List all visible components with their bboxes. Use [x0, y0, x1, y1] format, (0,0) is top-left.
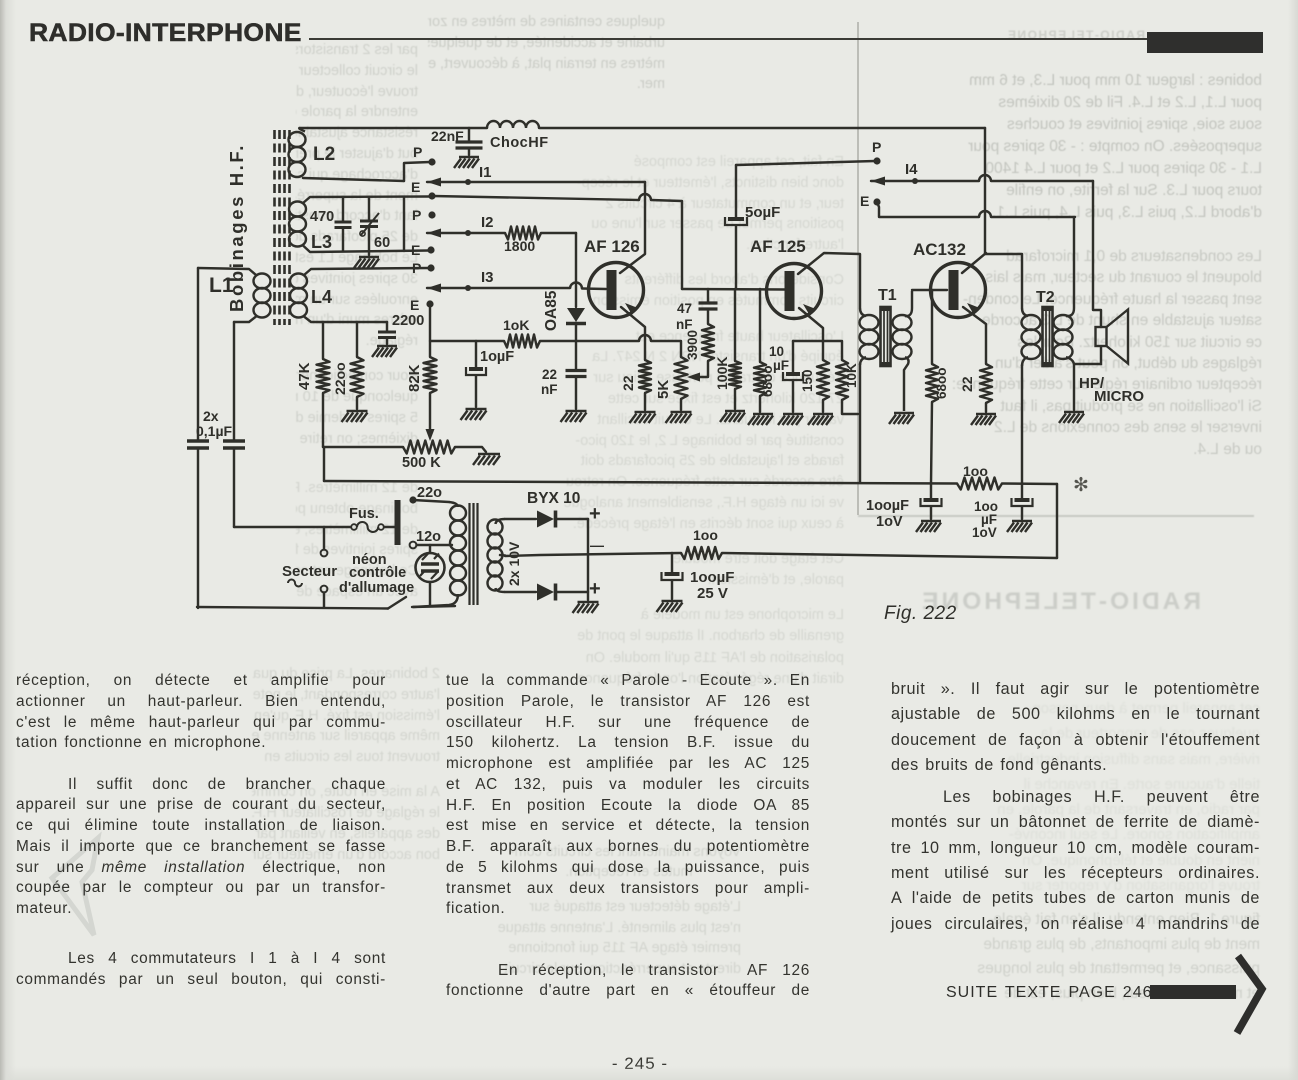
switch wiper I2: [427, 229, 441, 238]
mains transformer primary: [449, 502, 458, 507]
capacitor 100uF 10V (#1): [930, 484, 932, 498]
switch contact E3: [426, 300, 433, 307]
wire: L3 tank junction: [403, 197, 405, 251]
resistor 6800 (AC132 base): [931, 290, 933, 364]
capacitor 22nF (detector): [566, 371, 587, 377]
wire: 82K to 500K wiper: [429, 393, 431, 429]
ground (T2 secondary): [1064, 411, 1084, 414]
svg-text:AC132: AC132: [913, 240, 966, 259]
svg-text:T2: T2: [1036, 289, 1055, 306]
svg-text:2x 10V: 2x 10V: [506, 541, 522, 586]
wire: rectifier positive to ground: [587, 519, 589, 600]
svg-text:I4: I4: [905, 161, 918, 178]
wire: AF126 collector: [620, 182, 645, 273]
capacitor 10uF (AF audio): [475, 341, 477, 367]
svg-text:5K: 5K: [655, 380, 672, 399]
ground (22nF): [459, 156, 479, 159]
wire: E1 line toward AF125: [433, 196, 639, 200]
switch contact P4: [873, 157, 880, 164]
svg-text:L4: L4: [311, 287, 332, 307]
wire: E4 to T2 secondary: [877, 202, 979, 217]
wire: OA85 anode branch: [575, 233, 577, 307]
wire: L3 bottom to switch contact E2: [303, 246, 429, 253]
wire: AF126 emitter: [621, 307, 645, 360]
svg-text:L3: L3: [311, 232, 332, 252]
svg-text:10: 10: [769, 344, 784, 359]
svg-text:2x: 2x: [203, 408, 219, 424]
svg-text:nF: nF: [541, 382, 558, 397]
svg-text:T1: T1: [878, 287, 897, 304]
wire: rail A corner: [323, 447, 325, 481]
svg-text:60: 60: [374, 235, 390, 251]
svg-text:contrôle: contrôle: [349, 565, 406, 581]
svg-text:BYX 10: BYX 10: [527, 490, 580, 507]
ground (rectifier +): [578, 601, 599, 604]
mains transformer secondary 2x10V: [496, 519, 506, 524]
mains terminal (Secteur top): [321, 550, 328, 557]
ground (trimmer 60): [359, 256, 379, 259]
svg-text:E: E: [860, 193, 869, 209]
wire: 47K to 500K node: [322, 393, 324, 447]
svg-text:—: —: [590, 537, 604, 553]
svg-text:P: P: [413, 144, 422, 160]
svg-text:1oµF: 1oµF: [480, 349, 514, 365]
resistor 22 (AC132 emitter): [980, 364, 992, 403]
svg-text:1800: 1800: [504, 238, 535, 254]
svg-text:P: P: [412, 260, 421, 276]
switch wiper I4: [871, 177, 885, 186]
wire: AF125 emitter: [799, 308, 823, 360]
ferrite core (dashed bars, Bobinages H.F.): [273, 130, 276, 325]
svg-text:E: E: [411, 242, 420, 258]
ground (2200 cap): [377, 345, 397, 348]
ground (T1 secondary): [894, 412, 914, 415]
switch contact P3: [427, 264, 434, 271]
wire: L1 lead to mains (right): [233, 322, 235, 440]
wire: top supply rail right section: [539, 127, 985, 129]
capacitor 2200 (L4 tank): [386, 322, 388, 331]
svg-text:I1: I1: [479, 164, 492, 181]
svg-text:0,1µF: 0,1µF: [196, 423, 233, 439]
svg-text:Fig. 222: Fig. 222: [884, 603, 957, 624]
switch contact E2: [427, 246, 434, 253]
wire: 6800 to decoupled rail: [931, 402, 932, 484]
resistor 10K (detector load): [504, 335, 540, 348]
ground (22nF detector): [566, 410, 587, 413]
svg-text:µF: µF: [773, 358, 789, 373]
transistor AF126: [589, 263, 644, 318]
resistor 2200 (bias): [356, 322, 358, 357]
svg-text:P: P: [412, 207, 421, 223]
coil L2: [289, 132, 306, 147]
wire: T2 secondary ground stub: [1073, 364, 1075, 410]
svg-text:22: 22: [959, 376, 975, 392]
wire: 1800 to OA85 branch: [541, 232, 576, 234]
switch wiper I1: [427, 178, 441, 187]
svg-text:E: E: [410, 297, 419, 313]
svg-text:I3: I3: [481, 269, 494, 286]
svg-text:AF 126: AF 126: [584, 237, 640, 256]
resistor 3900: [702, 324, 714, 361]
capacitor 0,1uF (mains coupling #2): [223, 441, 245, 448]
wire: 3900 to 5K wiper: [692, 361, 708, 377]
switch contact P2: [428, 211, 435, 218]
svg-text:Fus.: Fus.: [349, 506, 379, 522]
ground (100K): [725, 410, 745, 413]
wire: AC132 emitter: [963, 307, 986, 364]
svg-text:L1: L1: [209, 274, 234, 297]
svg-text:ChocHF: ChocHF: [490, 135, 549, 151]
wire: bottom rail to transformer: [412, 606, 455, 607]
svg-text:P: P: [872, 139, 881, 155]
svg-text:68oo: 68oo: [934, 367, 949, 399]
wire: rail A to negative rail: [1056, 484, 1058, 558]
svg-text:1ooµF: 1ooµF: [690, 569, 734, 586]
svg-text:I2: I2: [481, 214, 494, 231]
wire: 10K to 5K top (through OA85 node): [540, 340, 639, 342]
svg-text:+: +: [589, 578, 601, 600]
wire: mains bottom rail feed: [197, 448, 199, 608]
wire: L1 lead to mains (left): [197, 268, 199, 440]
ground (100uF 25V): [662, 600, 683, 603]
neon lamp (controle d'allumage): [429, 545, 431, 553]
wire: L4 top to switch contact P3: [304, 268, 429, 275]
ground (22 emitter AF126): [635, 411, 656, 414]
ground (5K): [671, 411, 692, 414]
svg-text:22o: 22o: [417, 485, 442, 501]
wire: supply drop to AC132 collector node: [984, 128, 986, 253]
wire: top supply rail left section: [300, 127, 487, 129]
resistor 100 (rail decoupling): [957, 478, 1002, 490]
wire: L3 top to switch contact E1: [303, 197, 429, 204]
wire: mains bottom rail: [197, 607, 388, 609]
transistor AC132: [931, 263, 986, 318]
resistor 82K: [424, 357, 437, 393]
wire: T1 secondary to AC132 base: [912, 289, 947, 291]
wire: mains to fuse: [234, 526, 351, 528]
capacitor 22nF (top rail decoupling): [468, 128, 470, 141]
wire: P4 line: [736, 161, 875, 165]
wire: to 5K potentiometer: [651, 341, 681, 357]
resistor 22 (AF126 emitter): [639, 360, 651, 393]
svg-text:d'allumage: d'allumage: [339, 580, 414, 596]
ground (100uF #2): [1012, 520, 1032, 523]
coil L3: [289, 202, 306, 217]
switch contact E1: [428, 192, 435, 199]
transformer T1: [860, 308, 866, 316]
svg-text:2200: 2200: [392, 313, 424, 329]
svg-text:+: +: [589, 503, 601, 525]
wire: AC132 collector to T2 primary: [985, 254, 1022, 308]
wire: T1 primary bottom to rail: [859, 364, 861, 482]
capacitor 470 (across L3): [342, 198, 344, 221]
diode BYX10 (bottom): [505, 591, 536, 593]
mains terminal (Secteur bottom): [321, 586, 328, 593]
svg-text:47K: 47K: [296, 362, 313, 390]
transistor AF125: [767, 264, 822, 319]
capacitor 10uF (AF125 emitter bypass): [792, 341, 794, 372]
svg-text:47: 47: [677, 301, 692, 316]
svg-text:OA85: OA85: [543, 290, 560, 331]
wire: HP top to I4: [1093, 181, 1101, 327]
svg-text:1ooµF: 1ooµF: [866, 498, 909, 514]
svg-text:1oV: 1oV: [876, 514, 903, 530]
svg-text:5oµF: 5oµF: [745, 204, 780, 221]
svg-text:25 V: 25 V: [697, 585, 728, 602]
svg-text:1oo: 1oo: [963, 463, 988, 479]
wire: I4 to HP: [991, 180, 1093, 182]
suite arrow: [1145, 944, 1275, 1044]
svg-text:3900: 3900: [685, 330, 700, 360]
svg-text:MICRO: MICRO: [1094, 388, 1144, 405]
wire: I1 to AF126 collector line: [427, 181, 645, 183]
wire: L4 bottom: [304, 317, 387, 323]
svg-text:500 K: 500 K: [402, 455, 441, 471]
resistor 150 (AF125 emitter): [817, 360, 829, 400]
potentiometer 5K: [675, 357, 688, 399]
resistor 1800: [505, 227, 541, 240]
switch wiper I3: [427, 284, 441, 293]
svg-text:1oV: 1oV: [972, 525, 997, 540]
svg-text:10K: 10K: [844, 363, 859, 388]
wire: E3 node to 10K: [430, 340, 504, 342]
voltage selector bar: [395, 500, 401, 545]
wire: AF125 emitter node: [793, 340, 841, 342]
potentiometer 500K: [403, 441, 455, 454]
wire: L2 to switch contact P1: [404, 162, 430, 181]
svg-text:L2: L2: [313, 144, 335, 165]
ground (10uF AF125): [783, 413, 803, 416]
svg-text:1oK: 1oK: [503, 317, 529, 333]
svg-text:100K: 100K: [714, 357, 730, 390]
ground (6800 AF125): [753, 413, 773, 416]
svg-text:470: 470: [310, 209, 334, 225]
terminal 120: [410, 542, 417, 549]
svg-text:82K: 82K: [406, 364, 423, 392]
resistor 100 (supply filter): [681, 547, 722, 559]
mains transformer core: [470, 503, 478, 605]
svg-text:22oo: 22oo: [332, 362, 348, 395]
ground (500K): [478, 453, 500, 456]
svg-text:22: 22: [620, 375, 636, 391]
diode OA85: [567, 308, 585, 322]
inductor ChocHF: [487, 121, 539, 128]
svg-text:Secteur: Secteur: [282, 563, 337, 580]
wire: 50uF to P4: [735, 165, 737, 217]
capacitor 0,1uF (mains coupling #1): [187, 441, 209, 448]
svg-text:AF 125: AF 125: [750, 237, 806, 256]
diode BYX10 (top): [505, 518, 536, 520]
wire: decoupled supply rail A: [324, 481, 957, 484]
coil L4: [290, 274, 307, 289]
resistor 6800 (AF125 base): [759, 289, 761, 362]
svg-text:nF: nF: [676, 317, 693, 332]
resistor 100K (AF125 base bias): [734, 289, 736, 361]
wire: negative rail to rail A: [722, 553, 1057, 558]
svg-text:12o: 12o: [416, 529, 441, 545]
resistor 47K: [322, 322, 324, 359]
wire: negative rail (centre tap): [505, 553, 681, 556]
wire: E3 down to 82K: [429, 307, 431, 357]
svg-text:150: 150: [800, 369, 815, 392]
capacitor 100uF 25V: [671, 553, 673, 572]
ground (2200): [347, 410, 368, 413]
ground (10uF): [466, 408, 487, 411]
wire: 10K to supply rail drop: [842, 400, 858, 414]
svg-text:1oo: 1oo: [693, 527, 718, 543]
loudspeaker HP/MICRO: [1096, 327, 1107, 346]
ground (100uF #1): [921, 520, 941, 523]
wire: AF125 base rail: [682, 288, 785, 291]
switch contact P1: [428, 158, 435, 165]
wire: 50uF to AF125 base: [735, 226, 737, 289]
trimmer capacitor 60: [368, 198, 370, 220]
ground (22 AC132): [976, 413, 996, 416]
svg-text:E: E: [411, 179, 420, 195]
wire: AC132 collector: [962, 253, 986, 273]
svg-text:22nF: 22nF: [431, 128, 464, 144]
coil L1: [254, 274, 271, 289]
wire: I3 to AF126 base: [427, 287, 570, 289]
capacitor 100uF 10V (#2): [1021, 484, 1023, 498]
transformer T2: [1022, 308, 1028, 316]
wire: switch blade: [388, 597, 406, 609]
switch contact E4: [873, 198, 880, 205]
wire: E line corner down to AF125 base rail: [651, 200, 682, 289]
wire: T2 primary bottom to rail: [1021, 365, 1023, 484]
terminal 220: [409, 496, 416, 503]
ground (150): [813, 413, 833, 416]
svg-text:22: 22: [542, 367, 557, 382]
resistor 10K (AF125 emitter to supply): [836, 360, 848, 400]
wire: to 500K: [323, 446, 403, 448]
wire: AF125 collector to T1 primary: [798, 253, 860, 308]
capacitor 47nF: [707, 289, 709, 302]
